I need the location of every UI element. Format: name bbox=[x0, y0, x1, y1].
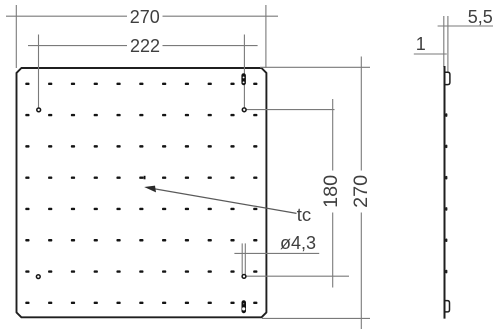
tc leader arrow bbox=[144, 186, 296, 214]
dimension 222: extension line right (to hole) bbox=[243, 35, 245, 108]
top slot (clip) bbox=[241, 73, 246, 85]
dimension 270 right: dim line bbox=[360, 57, 362, 330]
dimension 270 right: extension line bottom bbox=[262, 317, 370, 319]
dimension 270 right: extension line top bbox=[260, 66, 370, 68]
dimension 270 top: dim line bbox=[6, 15, 278, 17]
mounting hole top-left bbox=[37, 108, 41, 112]
mounting hole bottom-left bbox=[36, 275, 40, 279]
dimension 270 top: extension line right bbox=[265, 5, 267, 68]
side view top clip bbox=[445, 72, 450, 84]
svg-text:1: 1 bbox=[416, 34, 426, 54]
hole diameter dim: leader line bbox=[234, 252, 319, 254]
dimension 5,5: leader line bbox=[438, 25, 493, 27]
side view: extension line clip tips bbox=[447, 16, 449, 73]
svg-text:222: 222 bbox=[130, 36, 160, 56]
hole diameter dim: witness line right bbox=[244, 243, 246, 274]
dimension 222: extension line left (to hole) bbox=[38, 35, 40, 108]
dimension 1: leader line bbox=[414, 53, 447, 55]
svg-text:270: 270 bbox=[350, 175, 372, 208]
svg-text:tc: tc bbox=[297, 204, 311, 225]
bottom slot (clip) bbox=[242, 300, 247, 313]
side view plate (edge-on) bbox=[444, 66, 446, 319]
side view dimples bbox=[445, 113, 447, 273]
dimension 180: extension line top (from hole) bbox=[246, 109, 334, 111]
svg-text:180: 180 bbox=[320, 175, 342, 208]
plate outline (front view 270x270) bbox=[17, 68, 267, 317]
mounting hole top-right bbox=[242, 108, 246, 112]
svg-text:ø4,3: ø4,3 bbox=[280, 233, 316, 253]
dimension 180: dim line bbox=[332, 99, 334, 288]
side view: extension line left face bbox=[443, 16, 445, 67]
dimension 180: extension line bottom (from hole) bbox=[246, 275, 349, 277]
svg-text:270: 270 bbox=[130, 7, 160, 27]
grid of heater holes (11 cols x 8 rows dashes) bbox=[25, 83, 257, 304]
tc measuring point tick bbox=[144, 176, 146, 180]
dimension 270 top: extension line left bbox=[15, 5, 17, 68]
mounting hole bottom-right bbox=[242, 275, 246, 279]
svg-text:5,5: 5,5 bbox=[468, 7, 493, 27]
side view bottom clip bbox=[445, 301, 449, 312]
hole diameter dim: witness line left bbox=[241, 243, 243, 274]
dimension 222: dim line bbox=[28, 45, 258, 47]
